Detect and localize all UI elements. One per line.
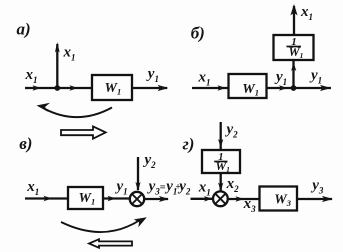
wire: output up from 1/W1 (diagram b) [293, 6, 295, 35]
caption g) [183, 134, 195, 153]
svg-text:б): б) [191, 24, 205, 43]
node label y1 (after W1, diagram b) [274, 69, 287, 87]
summing junction (diagram g) [213, 191, 228, 206]
arrowhead into W1 (diagram b) [218, 85, 227, 90]
arrowhead into 1/W1 (diagram g) [218, 139, 223, 148]
wire: branch up from node into 1/W1 (diagram b) [292, 60, 294, 88]
arrowhead into summer top (diagram v) [135, 182, 140, 191]
svg-text:W1: W1 [289, 45, 304, 60]
svg-text:=: = [160, 183, 166, 194]
svg-text:y1: y1 [309, 68, 322, 86]
wire: output of W1 to right edge (diagram b) [267, 87, 332, 89]
arrowhead into summer top (diagram g) [218, 183, 223, 192]
block W1 (diagram a) [92, 75, 132, 100]
node label x1 (input, diagram b) [198, 70, 211, 88]
arrowhead up into 1/W1 box (diagram b) [291, 63, 296, 72]
svg-text:x1: x1 [26, 179, 39, 197]
svg-text:x2: x2 [226, 176, 240, 194]
hollow double arrow pointing right (between a and v) [61, 126, 106, 138]
node label x3 (diagram g) [243, 196, 257, 214]
wire: 1/W1 down to summer (diagram g) [220, 173, 222, 191]
wire: input into W1 (diagram v) [25, 197, 68, 199]
node label x1 (input, diagram g) [198, 180, 211, 198]
curved transform arrow (diagram v) [61, 220, 140, 232]
arrowhead at top (diagram b) [290, 4, 297, 16]
node label x2 (diagram g) [226, 176, 240, 194]
svg-text:y1: y1 [146, 66, 159, 84]
wire: W1 to summer (diagram v) [103, 197, 130, 199]
svg-text:x1: x1 [198, 70, 211, 88]
node label x1 (input, diagram a) [25, 67, 38, 85]
svg-text:x1: x1 [300, 4, 313, 22]
svg-text:y1: y1 [274, 69, 287, 87]
svg-text:W3: W3 [274, 193, 291, 209]
block W3 (diagram g) [260, 187, 298, 211]
arrowhead on summer output (diagram v) [159, 196, 169, 202]
node label y3 = y1+y2 (diagram v) [147, 179, 191, 197]
node label x1 (branch, diagram a) [63, 45, 76, 63]
svg-text:y3: y3 [310, 178, 324, 196]
caption a) [17, 20, 31, 39]
junction node dot (diagram b) [291, 85, 297, 91]
arrowhead on input wire (diagram a) [33, 85, 42, 90]
hollow double arrow pointing left (diagram v) [89, 239, 132, 248]
wire: output of W3 (diagram g) [297, 198, 332, 200]
svg-text:W1: W1 [79, 191, 96, 207]
wire: left input into summer (diagram g) [191, 198, 214, 200]
block W1 (diagram b) [229, 74, 267, 98]
arrowhead before W3 (diagram g) [236, 196, 245, 201]
arrowhead at output (diagram g) [322, 196, 333, 202]
wire: summer output (diagram v) [144, 198, 168, 200]
svg-text:W1: W1 [216, 159, 230, 174]
curved transform arrow (diagram a) [45, 108, 112, 118]
svg-text:г): г) [183, 134, 195, 153]
svg-text:y2: y2 [143, 152, 157, 170]
wire: input into W1 (diagram b) [192, 87, 228, 89]
arrowhead on input (diagram v) [44, 196, 53, 201]
block W1 (diagram v) [68, 187, 103, 209]
node label y3 (output, diagram g) [310, 178, 324, 196]
wire: summer to W3 (diagram g) [228, 198, 260, 200]
wire: y2 drop into summer (diagram v) [137, 157, 139, 190]
svg-text:x1: x1 [25, 67, 38, 85]
block 1/W1 (diagram g) [202, 150, 240, 173]
summing junction (diagram v) [130, 192, 144, 206]
arrowhead before node (diagram b) [279, 85, 288, 90]
arrowhead at top of branch (diagram a) [55, 42, 60, 53]
node label x1 (top output, diagram b) [300, 4, 313, 22]
node label y1 (output, diagram a) [146, 66, 159, 84]
wire: output of W1 (diagram a) [132, 87, 167, 89]
svg-text:y1: y1 [115, 179, 128, 197]
arrowhead on output (diagram a) [158, 85, 169, 91]
svg-text:а): а) [17, 20, 31, 39]
node label y2 (diagram v) [143, 152, 157, 170]
arrowhead after W1 (diagram v) [108, 196, 117, 201]
svg-text:x1: x1 [63, 45, 76, 63]
svg-text:W1: W1 [242, 82, 259, 98]
node label y1 (output, diagram b) [309, 68, 322, 86]
arrowhead at right output (diagram b) [320, 85, 331, 91]
block 1/W1 (diagram b) [274, 35, 314, 60]
arrowhead after node (diagram a) [70, 85, 79, 90]
wire: input line into W1 (diagram a) [25, 87, 92, 89]
node label y2 (diagram g) [225, 122, 239, 140]
junction node dot (diagram a) [54, 85, 60, 91]
wire: y2 input from top (diagram g) [220, 122, 222, 150]
wire: vertical branch up from node (diagram a) [56, 44, 58, 88]
node label y1 (diagram v) [115, 179, 128, 197]
node label x1 (input, diagram v) [26, 179, 39, 197]
svg-text:в): в) [19, 134, 32, 153]
svg-text:x1: x1 [198, 180, 211, 198]
arrowhead into summer left (diagram g) [204, 196, 213, 201]
svg-text:y3: y3 [147, 179, 161, 197]
svg-text:y2: y2 [225, 122, 239, 140]
svg-text:y2: y2 [177, 179, 191, 197]
svg-text:W1: W1 [105, 81, 122, 97]
caption b) [191, 24, 205, 43]
caption v) [19, 134, 32, 153]
